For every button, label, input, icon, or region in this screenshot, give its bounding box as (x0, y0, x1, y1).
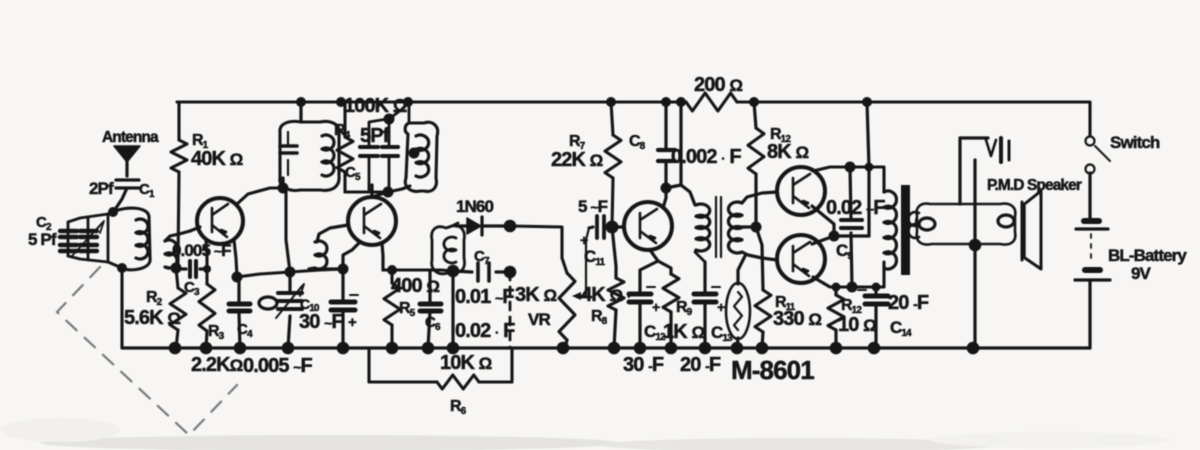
node C3 right (203, 265, 211, 273)
capacitor C11 5uF (589, 227, 612, 228)
node bus x563 (557, 342, 570, 355)
antenna coil secondary (165, 231, 190, 268)
capacitor C9 0.02uF (850, 167, 852, 287)
svg-text:0.005 ~F: 0.005 ~F (243, 355, 313, 377)
resistor R10 8K (754, 102, 756, 227)
wire top bus drop x869 (867, 102, 869, 236)
transistor Q2 (348, 197, 396, 245)
transistor Q4 (777, 167, 825, 215)
node osc (285, 267, 296, 278)
resistor R3 2.2K (206, 269, 207, 348)
svg-text:+: + (717, 299, 725, 315)
svg-text:5 ~F: 5 ~F (578, 197, 608, 216)
variable capacitor C2 5Pf gang (68, 214, 108, 262)
transistor Q5 (777, 235, 825, 283)
IF transformer T2 (408, 102, 411, 123)
capacitor C5 5Pf twin (369, 103, 408, 147)
potentiometer VR 3K (559, 273, 575, 340)
node bus x175 (169, 342, 182, 355)
capacitor C1 2Pf (114, 180, 139, 211)
svg-text:C3: C3 (184, 279, 200, 298)
svg-text:+: + (348, 314, 357, 331)
wire tank to bottom bus (120, 268, 123, 348)
capacitor C7 (453, 271, 510, 272)
node bus x874 (868, 342, 881, 355)
svg-text:330 Ω: 330 Ω (773, 308, 821, 330)
capacitor C14 20uF (874, 287, 877, 348)
svg-text:VR: VR (528, 310, 550, 329)
node Q1 emitter (232, 272, 243, 283)
resistor R9 1K (658, 261, 671, 348)
node bus x836 (830, 342, 843, 355)
svg-text:R2: R2 (146, 289, 163, 308)
node bus x973 (967, 342, 980, 355)
svg-text:Switch: Switch (1110, 133, 1160, 152)
wire emitters (812, 206, 869, 244)
svg-text:C8: C8 (629, 133, 646, 152)
svg-text:5.6K Ω: 5.6K Ω (124, 307, 180, 329)
svg-text:C6: C6 (425, 314, 441, 333)
svg-text:0.005 ~F: 0.005 ~F (172, 241, 231, 260)
wire detector to VR (510, 226, 567, 273)
resistor R11 330 (756, 227, 763, 348)
svg-text:10K Ω: 10K Ω (440, 352, 492, 374)
switch S1 (1086, 137, 1095, 146)
svg-text:R5: R5 (399, 300, 416, 319)
svg-text:20 -F: 20 -F (888, 292, 929, 314)
wire C7 left leg (451, 271, 454, 348)
svg-text:C5: C5 (345, 164, 361, 183)
driver transformer T4 (666, 102, 695, 205)
node bus x343 (337, 342, 350, 355)
svg-text:1K Ω: 1K Ω (663, 321, 704, 343)
svg-text:5 Pf: 5 Pf (28, 230, 57, 249)
svg-text:R3: R3 (208, 323, 225, 342)
node bus x762 (756, 342, 769, 355)
wire Q4 collector top (813, 167, 884, 192)
oscillator feedback coil (315, 241, 327, 269)
wire speaker down (973, 160, 976, 348)
node bus x614 (608, 342, 621, 355)
svg-text:4K Ω ·: 4K Ω · (581, 284, 630, 306)
wire IFT1 bottom to node (286, 192, 290, 272)
scan smudge background (0, 418, 1170, 450)
svg-text:3K Ω: 3K Ω (515, 284, 556, 306)
node osc coil bottom (338, 264, 349, 275)
svg-text:40K Ω: 40K Ω (191, 148, 243, 170)
node bus x671 (665, 342, 678, 355)
wire Q2 collector up (370, 185, 373, 197)
antenna coil L1 primary (108, 208, 150, 270)
node detector out (504, 220, 517, 233)
variable capacitor padder with loop (288, 272, 290, 348)
speaker voice coil (917, 204, 1016, 245)
svg-text:R6: R6 (450, 398, 467, 417)
svg-text:30 -F: 30 -F (623, 354, 664, 376)
resistor R2 5.6K (176, 268, 178, 348)
resistor R7 22K (611, 102, 613, 227)
svg-text:C4: C4 (237, 321, 253, 340)
antenna (125, 161, 128, 176)
resistor R12 10ohm (834, 287, 837, 348)
wire Q1 leads down (206, 240, 237, 277)
node tank top (108, 207, 118, 217)
resistor R4 100K (343, 102, 346, 192)
capacitor C10 30uF electrolytic (341, 269, 344, 348)
capacitor C13 20uF (703, 262, 706, 348)
capacitor C4 0.005uF electrolytic (239, 277, 240, 348)
wire Q2 base left (317, 225, 348, 242)
svg-text:8K Ω: 8K Ω (767, 141, 808, 163)
node bus x240 (234, 342, 247, 355)
svg-text:9V: 9V (1131, 264, 1152, 283)
capacitor C3 0.005uF (176, 267, 207, 270)
svg-text:R8: R8 (591, 308, 608, 327)
node bus x288 (282, 342, 295, 355)
svg-text:R4: R4 (334, 122, 351, 141)
wire Q3 collector (663, 188, 666, 208)
svg-text:1N60: 1N60 (456, 197, 493, 216)
svg-text:+: + (580, 232, 588, 248)
detector transformer T3 (432, 226, 465, 274)
svg-text:10 Ω: 10 Ω (838, 314, 876, 336)
node bus x392 (386, 342, 399, 355)
svg-text:400 Ω: 400 Ω (391, 275, 439, 297)
node bus x428 (422, 342, 435, 355)
diode D1 1N60 (456, 224, 510, 227)
svg-text:200 Ω: 200 Ω (694, 74, 742, 96)
svg-text:5Pf: 5Pf (360, 125, 390, 147)
wire Q3 emitter (650, 250, 658, 261)
speaker magnet icon (960, 138, 988, 204)
capacitor 0.01/0.02 dashed leg (509, 272, 512, 348)
transistor Q3 (624, 202, 672, 250)
thermistor (737, 256, 745, 348)
node bus x640 (634, 342, 647, 355)
resistor 200ohm in top bus (686, 93, 737, 111)
resistor R5 400ohm (390, 270, 393, 348)
node Q3 base (606, 221, 619, 234)
node bus x206 (200, 342, 213, 355)
svg-text:BL-Battery: BL-Battery (1108, 246, 1187, 265)
dashed diamond watermark corner (57, 267, 237, 435)
node bus x737 (731, 342, 744, 355)
svg-text:0.02 · F: 0.02 · F (455, 320, 515, 342)
capacitor C12 30uF (640, 261, 658, 348)
svg-text:0.02 ~F: 0.02 ~F (826, 197, 885, 219)
svg-text:Antenna: Antenna (102, 129, 159, 146)
svg-text:2Pf: 2Pf (89, 179, 114, 198)
svg-text:R9: R9 (676, 299, 693, 318)
resistor R1 40K (178, 102, 179, 263)
resistor R8 4K (612, 227, 616, 348)
svg-text:+: + (652, 299, 660, 315)
capacitor C8 0.002uF (664, 102, 667, 188)
svg-text:22K Ω: 22K Ω (551, 149, 603, 171)
wire Q5 collector bottom (813, 262, 884, 287)
svg-text:2.2KΩ: 2.2KΩ (191, 354, 243, 376)
wire Q2 emitter down (343, 242, 383, 270)
battery BL 9V (1088, 173, 1091, 218)
wire node row (237, 269, 343, 277)
svg-text:20 -F: 20 -F (680, 354, 721, 376)
transistor Q1 (197, 198, 243, 244)
output transformer T5 primary (884, 191, 896, 269)
wire Q1 collector to IFT1 (237, 188, 283, 204)
wire bottom bus (122, 346, 1090, 349)
IF transformer T1 (283, 102, 301, 188)
wire emitter row (383, 270, 453, 271)
svg-text:M-8601: M-8601 (731, 355, 814, 385)
svg-text:C14: C14 (890, 318, 912, 339)
node tank bottom (117, 263, 127, 273)
svg-text:0.01 ~F: 0.01 ~F (455, 286, 514, 308)
wire top supply bus (177, 102, 1090, 136)
output transformer core (901, 185, 910, 275)
svg-text:C7: C7 (474, 248, 490, 267)
svg-text:C1: C1 (139, 181, 155, 200)
node bus x705 (699, 342, 712, 355)
svg-text:C11: C11 (584, 247, 606, 268)
node bias divider (171, 263, 182, 274)
wire collector row (345, 186, 410, 197)
svg-text:P.M.D Speaker: P.M.D Speaker (987, 177, 1082, 194)
speaker cone (1022, 191, 1041, 269)
output transformer secondary (908, 212, 919, 238)
resistor R6 10K loop (369, 348, 512, 382)
node bus x453 (447, 342, 460, 355)
svg-text:30 ~F: 30 ~F (299, 311, 343, 333)
capacitor C6 (428, 270, 430, 348)
